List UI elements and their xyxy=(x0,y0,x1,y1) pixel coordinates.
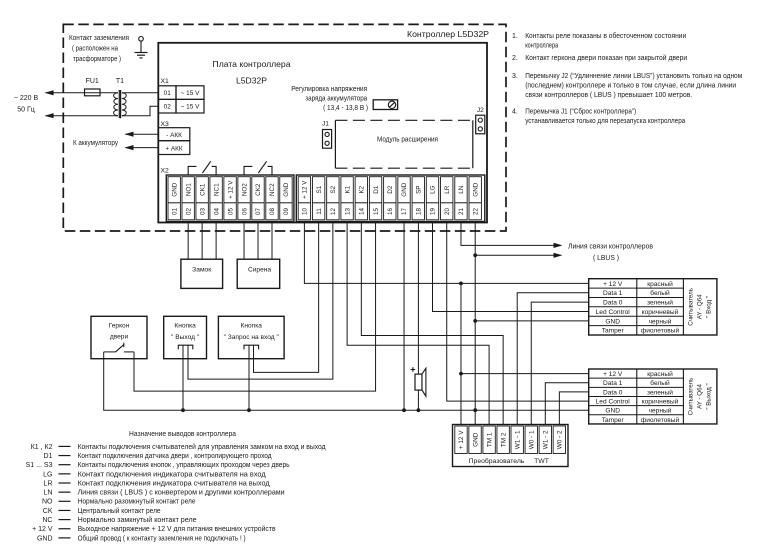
svg-text:12: 12 xyxy=(330,208,337,216)
svg-text:черный: черный xyxy=(649,407,672,415)
svg-text:FU1: FU1 xyxy=(86,78,99,85)
svg-text:зеленый: зеленый xyxy=(647,388,673,396)
svg-text:AY - Q64: AY - Q64 xyxy=(697,294,704,319)
svg-text:Контакт подключения индикатора: Контакт подключения индикатора считывате… xyxy=(78,471,266,478)
svg-text:LR: LR xyxy=(44,480,53,487)
svg-text:( расположен на: ( расположен на xyxy=(72,46,118,53)
svg-text:Data 1: Data 1 xyxy=(603,380,623,387)
svg-text:+ 12 V: + 12 V xyxy=(603,371,623,378)
svg-text:Модуль расширения: Модуль расширения xyxy=(377,137,438,144)
svg-text:" Вход ": " Вход " xyxy=(706,296,713,318)
svg-text:Общий провод ( к контакту зазе: Общий провод ( к контакту заземления не … xyxy=(78,534,246,542)
svg-text:( 13,4 - 13,8 В ): ( 13,4 - 13,8 В ) xyxy=(323,105,368,112)
svg-text:Контакт подключения датчика дв: Контакт подключения датчика двери , конт… xyxy=(78,453,272,460)
svg-text:NO1: NO1 xyxy=(185,183,192,196)
svg-text:02: 02 xyxy=(164,104,172,111)
svg-text:коричневый: коричневый xyxy=(642,397,679,405)
svg-text:( LBUS ): ( LBUS ) xyxy=(593,255,619,262)
svg-text:SP: SP xyxy=(415,185,422,193)
svg-text:22: 22 xyxy=(472,208,479,216)
svg-text:Центральный контакт реле: Центральный контакт реле xyxy=(78,507,161,515)
svg-text:4.: 4. xyxy=(512,109,518,116)
svg-text:+ 12 V: + 12 V xyxy=(302,180,309,199)
svg-text:черный: черный xyxy=(649,317,672,325)
svg-text:белый: белый xyxy=(650,289,670,297)
svg-text:Контакт подключения индикатора: Контакт подключения индикатора считывате… xyxy=(78,480,270,487)
svg-text:Контроллер L5D32P: Контроллер L5D32P xyxy=(407,29,489,39)
svg-text:Считыватель: Считыватель xyxy=(688,378,695,416)
svg-text:Сирена: Сирена xyxy=(248,267,271,274)
svg-text:GND: GND xyxy=(472,182,479,196)
svg-text:Data 0: Data 0 xyxy=(603,300,623,307)
svg-text:Контакты подключения считывате: Контакты подключения считывателей для уп… xyxy=(78,443,326,451)
svg-text:T1: T1 xyxy=(116,78,124,85)
svg-text:21: 21 xyxy=(458,208,465,216)
svg-text:06: 06 xyxy=(241,208,248,216)
svg-text:+ 12 V: + 12 V xyxy=(603,281,623,288)
svg-text:S2: S2 xyxy=(330,185,337,193)
svg-text:~ 220 В: ~ 220 В xyxy=(14,95,39,102)
svg-text:J1: J1 xyxy=(322,120,329,127)
svg-text:3.: 3. xyxy=(512,73,518,80)
svg-text:~ 15 V: ~ 15 V xyxy=(181,104,200,111)
svg-text:18: 18 xyxy=(415,208,422,216)
svg-text:Led Control: Led Control xyxy=(596,398,631,405)
svg-text:S1 ... S3: S1 ... S3 xyxy=(26,462,53,469)
svg-text:Преобразователь: Преобразователь xyxy=(469,457,525,465)
svg-text:08: 08 xyxy=(269,208,276,216)
svg-text:(последнем) контроллере и то: (последнем) контроллере и только в том с… xyxy=(525,83,736,90)
svg-text:05: 05 xyxy=(227,208,234,216)
svg-text:Tamper: Tamper xyxy=(602,328,625,335)
svg-text:К1 , К2: К1 , К2 xyxy=(31,444,53,451)
svg-text:Кнопка: Кнопка xyxy=(240,322,262,329)
svg-text:Data 0: Data 0 xyxy=(603,389,623,396)
svg-text:10: 10 xyxy=(302,208,309,216)
svg-text:GND: GND xyxy=(472,432,479,447)
svg-text:D1: D1 xyxy=(44,453,53,460)
svg-text:W1 - 2: W1 - 2 xyxy=(543,430,550,449)
svg-text:Контакт заземления: Контакт заземления xyxy=(69,35,129,42)
svg-text:Плата контроллера: Плата контроллера xyxy=(213,59,291,69)
svg-text:W0 - 2: W0 - 2 xyxy=(557,430,564,449)
svg-text:Led Control: Led Control xyxy=(596,309,631,316)
svg-text:1.: 1. xyxy=(512,33,518,40)
svg-text:19: 19 xyxy=(430,208,437,216)
svg-text:Назначение выводов контролле: Назначение выводов контроллера xyxy=(129,431,236,438)
svg-text:X2: X2 xyxy=(161,167,170,174)
svg-text:фиолетовый: фиолетовый xyxy=(641,416,680,424)
svg-text:TM 2: TM 2 xyxy=(500,432,507,447)
svg-text:Геркон: Геркон xyxy=(109,322,130,329)
svg-text:Перемычку J2 (“Удлиннение лин: Перемычку J2 (“Удлиннение линии LBUS”) у… xyxy=(525,73,742,80)
svg-text:красный: красный xyxy=(647,280,673,288)
svg-text:LG: LG xyxy=(43,471,52,478)
svg-text:NC2: NC2 xyxy=(269,183,276,196)
svg-text:2.: 2. xyxy=(512,55,518,62)
svg-text:NC: NC xyxy=(42,517,52,524)
svg-text:Кнопка: Кнопка xyxy=(174,322,196,329)
svg-text:X1: X1 xyxy=(161,78,170,85)
svg-text:LN: LN xyxy=(458,185,465,194)
svg-text:16: 16 xyxy=(387,208,394,216)
svg-text:зеленый: зеленый xyxy=(647,299,673,307)
svg-text:W0 - 1: W0 - 1 xyxy=(528,430,535,449)
svg-text:+ АКК: + АКК xyxy=(165,145,182,152)
svg-text:K2: K2 xyxy=(359,185,366,193)
svg-text:K1: K1 xyxy=(344,185,351,193)
svg-text:15: 15 xyxy=(373,208,380,216)
svg-text:20: 20 xyxy=(444,208,451,216)
svg-text:Контакт геркона двери показ: Контакт геркона двери показан при закрыт… xyxy=(525,54,687,62)
svg-text:W1 - 1: W1 - 1 xyxy=(514,430,521,449)
svg-text:02: 02 xyxy=(185,208,192,216)
svg-text:GND: GND xyxy=(605,408,620,415)
svg-text:01: 01 xyxy=(171,208,178,216)
svg-text:фиолетовый: фиолетовый xyxy=(641,327,680,335)
svg-text:Нормально разомкнутый контакт: Нормально разомкнутый контакт реле xyxy=(78,498,196,506)
svg-text:Выходное напряжение + 12 V д: Выходное напряжение + 12 V для питания в… xyxy=(78,525,276,533)
svg-text:LN: LN xyxy=(44,490,53,497)
svg-text:+ 12 V: + 12 V xyxy=(227,180,234,199)
svg-text:CK2: CK2 xyxy=(255,183,262,196)
svg-text:контроллера: контроллера xyxy=(525,42,558,49)
svg-text:09: 09 xyxy=(283,208,290,216)
svg-text:Нормально замкнутый контакт ре: Нормально замкнутый контакт реле xyxy=(78,516,197,524)
svg-text:+ 12 V: + 12 V xyxy=(458,430,465,449)
svg-text:TM 1: TM 1 xyxy=(486,432,493,447)
svg-text:двери: двери xyxy=(110,333,129,340)
svg-text:NO2: NO2 xyxy=(241,183,248,196)
svg-text:Data 1: Data 1 xyxy=(603,290,623,297)
svg-text:Замок: Замок xyxy=(192,267,211,274)
svg-text:AY - Q64: AY - Q64 xyxy=(697,383,704,408)
svg-text:D2: D2 xyxy=(387,185,394,194)
svg-text:GND: GND xyxy=(37,535,53,542)
svg-text:Контакты реле показаны в о: Контакты реле показаны в обесточенном со… xyxy=(525,32,686,40)
svg-text:TWT: TWT xyxy=(534,458,549,465)
svg-text:К аккумулятору: К аккумулятору xyxy=(73,140,118,147)
svg-text:" Запрос на вход ": " Запрос на вход " xyxy=(224,334,280,341)
svg-text:" Выход ": " Выход " xyxy=(706,383,713,409)
svg-text:Tamper: Tamper xyxy=(602,417,625,424)
svg-text:04: 04 xyxy=(213,208,220,216)
svg-text:50 Гц: 50 Гц xyxy=(17,107,35,114)
svg-text:03: 03 xyxy=(199,208,206,216)
svg-text:NO: NO xyxy=(42,499,53,506)
svg-text:Линия связи ( LBUS ) с конверт: Линия связи ( LBUS ) с конвертером и дру… xyxy=(78,490,285,497)
svg-text:Контакты подключения кнопок ,: Контакты подключения кнопок , управляющи… xyxy=(78,462,290,469)
svg-text:коричневый: коричневый xyxy=(642,308,679,316)
svg-text:- АКК: - АКК xyxy=(166,132,182,139)
svg-text:GND: GND xyxy=(283,182,290,196)
svg-text:+ 12 V: + 12 V xyxy=(32,526,53,533)
svg-text:NC1: NC1 xyxy=(213,183,220,196)
svg-text:GND: GND xyxy=(605,318,620,325)
svg-text:LR: LR xyxy=(444,185,451,194)
svg-text:LG: LG xyxy=(430,185,437,194)
svg-text:S1: S1 xyxy=(316,185,323,193)
svg-text:красный: красный xyxy=(647,370,673,378)
svg-text:D1: D1 xyxy=(373,185,380,194)
svg-text:Считыватель: Считыватель xyxy=(688,288,695,326)
svg-text:13: 13 xyxy=(344,208,351,216)
svg-text:17: 17 xyxy=(401,208,408,216)
svg-text:07: 07 xyxy=(255,208,262,216)
svg-text:Линия связи контроллеров: Линия связи контроллеров xyxy=(568,244,653,251)
svg-text:CK: CK xyxy=(43,508,53,515)
svg-text:связи контроллеров ( LBUS ): связи контроллеров ( LBUS ) превышает 10… xyxy=(525,92,692,99)
svg-text:GND: GND xyxy=(401,182,408,196)
svg-text:" Выход ": " Выход " xyxy=(171,334,200,341)
svg-text:14: 14 xyxy=(359,208,366,216)
svg-text:CK1: CK1 xyxy=(199,183,206,196)
svg-text:Перемычка J1 (“Сброс контролл: Перемычка J1 (“Сброс контроллера”) xyxy=(525,108,636,116)
svg-text:11: 11 xyxy=(316,208,323,215)
svg-text:заряда аккумулятора: заряда аккумулятора xyxy=(305,96,367,103)
svg-text:устанавливается только для пер: устанавливается только для перезапуска к… xyxy=(525,118,685,125)
svg-text:Регулировка напряжения: Регулировка напряжения xyxy=(291,86,367,93)
svg-text:J2: J2 xyxy=(477,107,484,114)
svg-text:~ 15 V: ~ 15 V xyxy=(181,90,200,97)
svg-text:L5D32P: L5D32P xyxy=(236,76,267,86)
svg-text:белый: белый xyxy=(650,379,670,387)
svg-text:01: 01 xyxy=(164,90,172,97)
svg-text:GND: GND xyxy=(171,182,178,196)
svg-text:трасформаторе ): трасформаторе ) xyxy=(73,56,121,63)
